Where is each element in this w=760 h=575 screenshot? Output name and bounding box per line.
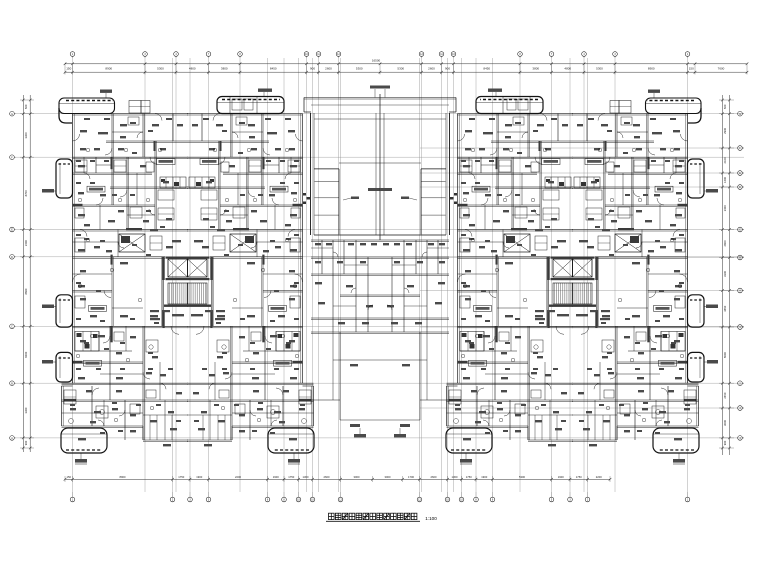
svg-text:5300: 5300: [157, 67, 164, 71]
svg-text:150: 150: [67, 475, 72, 479]
svg-text:1900: 1900: [481, 475, 487, 479]
top balcony strip east pipe loop: [217, 97, 284, 114]
top balcony strip west pipe loop: [59, 98, 115, 114]
svg-text:1750: 1750: [178, 475, 184, 479]
row grid lines: [16, 113, 744, 115]
svg-text:1700: 1700: [408, 475, 414, 479]
svg-text:8900: 8900: [120, 475, 126, 479]
top strip label: [648, 90, 660, 93]
bottom axis bubbles: [70, 497, 75, 502]
balcony west capsule b pipe loop: [56, 295, 73, 327]
svg-text:1750: 1750: [288, 475, 294, 479]
svg-text:2200: 2200: [596, 475, 602, 479]
svg-text:1900: 1900: [196, 475, 202, 479]
svg-text:900: 900: [723, 440, 727, 445]
svg-text:7600: 7600: [718, 67, 725, 71]
svg-text:C: C: [11, 325, 13, 328]
strip fixtures: [232, 99, 242, 110]
top balcony strip west pipe loop: [646, 98, 702, 114]
svg-text:3650: 3650: [723, 305, 727, 311]
svg-text:900: 900: [24, 440, 28, 445]
top axis bubbles: [70, 52, 75, 57]
svg-text:1900: 1900: [273, 475, 279, 479]
svg-text:500: 500: [24, 104, 28, 109]
svg-text:1900: 1900: [558, 475, 564, 479]
balcony west capsule a pipe loop: [688, 159, 705, 198]
svg-text:1:100: 1:100: [425, 516, 437, 521]
svg-text:6000: 6000: [24, 351, 28, 357]
left tower: [61, 114, 314, 465]
svg-text:150: 150: [66, 67, 71, 71]
svg-text:1300: 1300: [452, 475, 458, 479]
side leader labels: [42, 189, 54, 193]
svg-text:2450: 2450: [723, 392, 727, 398]
svg-text:3300: 3300: [723, 271, 727, 277]
svg-text:2200: 2200: [235, 475, 241, 479]
svg-text:8900: 8900: [648, 67, 655, 71]
svg-text:8450: 8450: [483, 67, 490, 71]
svg-text:8600: 8600: [24, 288, 28, 294]
svg-text:5300: 5300: [519, 475, 525, 479]
svg-text:G: G: [11, 113, 13, 116]
svg-text:3300: 3300: [24, 407, 28, 413]
svg-text:1750: 1750: [466, 475, 472, 479]
svg-text:900: 900: [310, 67, 315, 71]
flue boxes: [129, 101, 141, 114]
top balcony strip east pipe loop: [476, 97, 543, 114]
svg-text:2400: 2400: [24, 240, 28, 246]
column grid lines: [72, 58, 74, 492]
svg-text:3300: 3300: [24, 132, 28, 138]
svg-text:150: 150: [689, 67, 694, 71]
svg-text:4800: 4800: [189, 67, 196, 71]
right tower: [446, 114, 699, 465]
svg-text:2600: 2600: [325, 67, 332, 71]
strip label east: [488, 89, 502, 92]
title underline: [326, 520, 420, 522]
balcony west capsule c pipe loop: [56, 352, 73, 382]
svg-text:4800: 4800: [564, 67, 571, 71]
svg-text:1400: 1400: [723, 177, 727, 183]
center bridge left half: [303, 86, 380, 438]
left axis bubbles: [10, 111, 15, 116]
svg-text:8900: 8900: [105, 67, 112, 71]
svg-text:2800: 2800: [723, 240, 727, 246]
svg-text:500: 500: [723, 104, 727, 109]
strip label east: [258, 89, 272, 92]
svg-text:1750: 1750: [576, 475, 582, 479]
strip fixtures: [518, 99, 528, 110]
side leader labels: [706, 189, 718, 193]
svg-text:3800: 3800: [532, 67, 539, 71]
right dimension lines: [722, 95, 724, 455]
svg-text:2600: 2600: [428, 67, 435, 71]
svg-text:3000: 3000: [385, 475, 391, 479]
svg-text:8700: 8700: [24, 190, 28, 196]
right axis bubbles: [738, 111, 743, 116]
svg-text:2600: 2600: [431, 475, 437, 479]
bottom dimension lines: [65, 478, 610, 480]
title glyph row: [329, 513, 335, 519]
svg-text:C: C: [739, 229, 741, 232]
svg-text:16500: 16500: [372, 58, 381, 62]
svg-text:D: D: [739, 186, 741, 189]
svg-text:D: D: [11, 256, 13, 259]
svg-text:3400: 3400: [723, 205, 727, 211]
svg-text:G: G: [739, 113, 741, 116]
svg-text:2100: 2100: [723, 157, 727, 163]
right tower top balconies: [476, 89, 718, 383]
svg-text:2900: 2900: [723, 127, 727, 133]
svg-text:3000: 3000: [723, 419, 727, 425]
flue boxes: [619, 101, 631, 114]
svg-text:3800: 3800: [221, 67, 228, 71]
svg-text:5300: 5300: [596, 67, 603, 71]
svg-text:3000: 3000: [354, 475, 360, 479]
top dimension lines: [65, 63, 747, 65]
balcony west capsule b pipe loop: [688, 295, 705, 327]
top strip label: [100, 90, 112, 93]
svg-text:8450: 8450: [270, 67, 277, 71]
svg-text:1300: 1300: [303, 475, 309, 479]
svg-text:900: 900: [445, 67, 450, 71]
svg-text:5600: 5600: [723, 352, 727, 358]
left tower top balconies: [42, 89, 284, 383]
center bridge right half: [380, 86, 457, 438]
svg-text:2600: 2600: [324, 475, 330, 479]
svg-text:5300: 5300: [397, 67, 404, 71]
left dimension lines: [22, 95, 24, 452]
balcony west capsule a pipe loop: [56, 159, 73, 198]
svg-text:5300: 5300: [356, 67, 363, 71]
balcony west capsule c pipe loop: [688, 352, 705, 382]
